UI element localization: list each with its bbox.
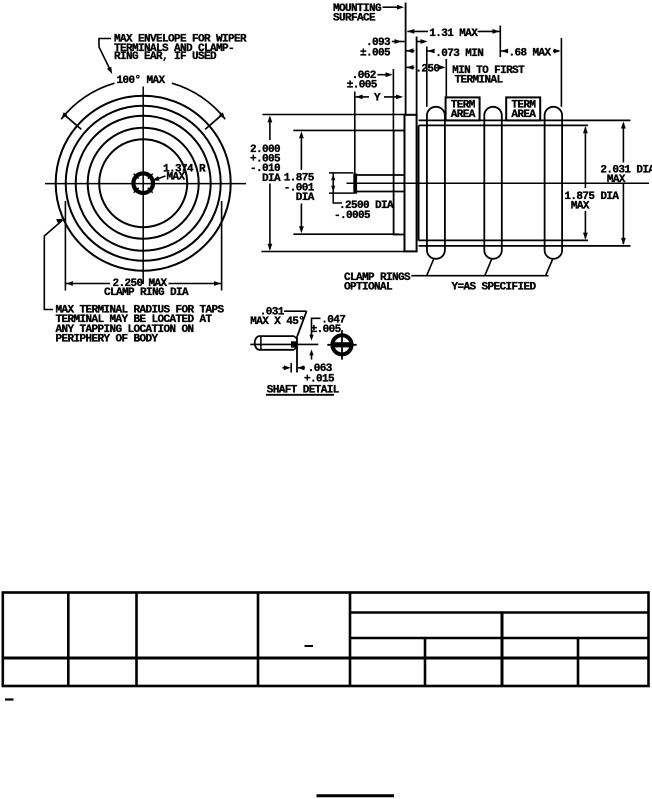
svg-text:MAX X 45°: MAX X 45°	[250, 316, 304, 328]
max terminal radius leader	[56, 219, 63, 224]
max envelope note leader	[99, 39, 111, 71]
flange right extension line	[416, 37, 418, 115]
svg-text:DIA: DIA	[296, 192, 315, 204]
shaft circle front view	[133, 173, 153, 193]
dimension .063	[283, 367, 289, 369]
dash below table	[5, 698, 14, 700]
bottom center rule	[317, 794, 395, 797]
dimension Y	[356, 95, 363, 100]
terminal area box 1	[446, 97, 480, 120]
label 1.374 R MAX with leader	[154, 176, 166, 180]
svg-text:AREA: AREA	[511, 109, 536, 121]
dimension .68 MAX	[501, 49, 508, 54]
slot bottom extension	[290, 363, 292, 373]
boss extension line	[392, 69, 394, 131]
mounting surface line	[405, 3, 407, 115]
svg-text:CLAMP RING DIA: CLAMP RING DIA	[104, 287, 189, 299]
body outline 2.031 envelope top	[419, 119, 631, 121]
dimension .073 MIN	[428, 49, 435, 54]
table vertical line col1	[67, 593, 70, 687]
table vertical line col3	[257, 593, 260, 687]
svg-text:.073 MIN: .073 MIN	[435, 48, 483, 60]
svg-text:.68 MAX: .68 MAX	[509, 47, 552, 59]
dimension 1.875 DIA MAX	[584, 128, 586, 189]
body outline 2.031 envelope bottom	[419, 245, 631, 247]
svg-text:SURFACE: SURFACE	[333, 13, 376, 25]
shaft side view	[357, 174, 405, 176]
table header line 2	[350, 611, 649, 614]
front view clamp ring circle	[66, 106, 221, 261]
ring1 extension line	[426, 47, 428, 107]
svg-text:PERIPHERY OF BODY: PERIPHERY OF BODY	[56, 334, 159, 346]
svg-text:±.005: ±.005	[311, 324, 342, 336]
svg-text:1.31 MAX: 1.31 MAX	[429, 28, 478, 40]
svg-text:±.005: ±.005	[360, 47, 391, 59]
table vertical line col7	[577, 638, 580, 686]
shaft end view circle	[332, 335, 351, 354]
shaft end line and extension	[296, 336, 298, 372]
svg-text:Y: Y	[374, 92, 381, 104]
arrow at mounting surface	[406, 48, 413, 53]
dimension 1.31 MAX	[407, 29, 414, 34]
table vertical line col2	[135, 593, 138, 687]
body outline 1.875 top	[419, 124, 588, 126]
front view body circle	[99, 139, 187, 227]
front view center lines	[142, 87, 144, 285]
clamp ring 2	[484, 107, 502, 259]
svg-text:100° MAX: 100° MAX	[117, 75, 166, 87]
dimension .047	[312, 318, 321, 338]
clamp ring 3	[545, 107, 563, 259]
dimension 2.000 dia line	[269, 119, 271, 141]
100 degree dimension arc	[61, 83, 114, 119]
dimension 2.000 dia extension lines	[262, 114, 404, 116]
table header line 3	[350, 637, 649, 640]
svg-text:OPTIONAL: OPTIONAL	[344, 282, 393, 294]
clamp ring 1	[427, 107, 445, 259]
dimension 2.250 MAX clamp ring dia	[64, 201, 66, 291]
shaft detail side view	[259, 335, 294, 337]
pilot boss 1.875 dia	[394, 131, 405, 235]
table vertical line col4	[349, 593, 352, 687]
table row separator	[3, 657, 649, 660]
body left edge	[418, 125, 420, 240]
dimension .250 min to first terminal	[406, 65, 413, 70]
100 degree limit slash left	[63, 114, 81, 130]
front view wiper envelope circle	[56, 96, 231, 271]
dimension .2500 DIA	[329, 172, 353, 174]
clamp ring leaders	[427, 260, 434, 276]
chamfer leader	[284, 310, 307, 312]
table dash cell	[305, 645, 314, 647]
svg-text:-.0005: -.0005	[334, 210, 371, 222]
svg-text:RING EAR, IF USED: RING EAR, IF USED	[114, 51, 217, 63]
dimension 1.875 -.001 dia extension lines	[293, 129, 393, 131]
svg-text:MAX: MAX	[571, 200, 590, 212]
front view circle 3	[76, 116, 211, 251]
svg-text:MAX: MAX	[607, 174, 626, 186]
body outline 1.875 bottom	[419, 239, 588, 241]
svg-text:Y=AS SPECIFIED: Y=AS SPECIFIED	[452, 282, 537, 294]
svg-text:±.005: ±.005	[347, 79, 378, 91]
shaft end extension line	[354, 92, 356, 174]
side view center line	[347, 182, 650, 184]
svg-text:MAX: MAX	[167, 172, 186, 184]
svg-text:DIA: DIA	[262, 173, 281, 185]
svg-text:.250: .250	[415, 63, 439, 75]
shaft detail center line	[250, 343, 318, 345]
terminal area box 2	[506, 97, 540, 120]
table outer border	[3, 593, 649, 687]
svg-text:AREA: AREA	[451, 109, 476, 121]
svg-text:TERMINAL: TERMINAL	[455, 74, 504, 86]
table vertical line col6 bold	[501, 613, 504, 687]
mounting flange 2.000 dia	[405, 115, 417, 252]
table vertical line col5	[424, 638, 427, 686]
ring3 extension line	[560, 38, 562, 107]
dimension 2.031 DIA MAX	[622, 123, 624, 163]
slot in shaft end	[291, 341, 297, 347]
100 degree limit slash right	[205, 114, 223, 130]
front view circle 2	[88, 128, 199, 239]
dimension 1.875 -.001 dia line	[300, 134, 302, 170]
